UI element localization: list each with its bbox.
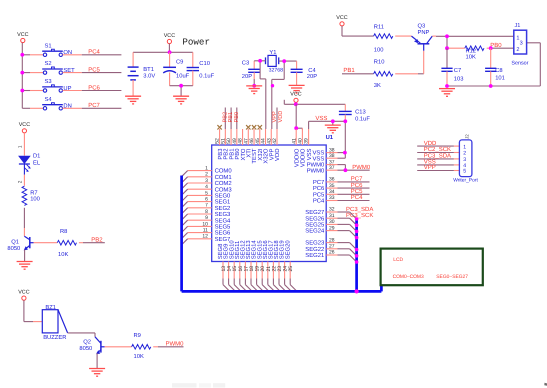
junction bbox=[294, 126, 298, 130]
pin 37 PWM0 bbox=[307, 165, 338, 174]
no-connect X bbox=[246, 125, 250, 129]
bus right vertical bbox=[355, 218, 358, 292]
svg-text:R9: R9 bbox=[134, 332, 141, 339]
pin 41 VDDIO bbox=[291, 129, 300, 167]
pin 39 VSS bbox=[304, 129, 313, 160]
svg-text:PC7: PC7 bbox=[88, 102, 100, 109]
wire VCC to buzzer bbox=[24, 300, 42, 321]
svg-text:SEG3: SEG3 bbox=[215, 211, 231, 218]
transistor Q2 8050 bbox=[79, 333, 104, 354]
pin 22 SEG17 bbox=[268, 240, 278, 284]
pin 34 PC5 bbox=[313, 189, 338, 198]
wire bus entry SEG1 bbox=[182, 202, 188, 208]
svg-text:PWM0: PWM0 bbox=[307, 167, 325, 174]
wire bus entry SEG11 bbox=[240, 285, 247, 292]
wire key row S3 bbox=[22, 90, 43, 92]
switch S3 bbox=[42, 78, 71, 92]
junction bbox=[355, 248, 359, 252]
svg-text:10K: 10K bbox=[466, 54, 476, 61]
pin 26 SEG21 bbox=[305, 250, 337, 259]
svg-text:11: 11 bbox=[203, 228, 208, 234]
resistor R10 3K bbox=[374, 58, 393, 89]
resistor R7 100 bbox=[22, 186, 40, 205]
wire VCC rail bbox=[284, 100, 345, 105]
svg-text:C7: C7 bbox=[454, 67, 461, 74]
wire bus entry SEG20 bbox=[290, 285, 297, 292]
svg-text:S3: S3 bbox=[45, 78, 52, 85]
pin 47 XTI bbox=[243, 129, 252, 158]
pin 31 SEG26 bbox=[305, 213, 337, 222]
power symbol VCC (buzzer) bbox=[18, 290, 29, 301]
wire bus entry SEG13 bbox=[251, 285, 258, 292]
pin 10 SEG5 bbox=[188, 221, 231, 230]
wire to seg bus bbox=[338, 224, 357, 231]
junction bbox=[355, 289, 359, 293]
svg-text:35: 35 bbox=[329, 183, 335, 189]
bus to LCD bbox=[380, 285, 383, 291]
svg-text:SEG5: SEG5 bbox=[215, 224, 231, 231]
capacitor C7 103 bbox=[441, 48, 463, 86]
crystal Y1 32768 bbox=[266, 50, 284, 73]
svg-text:PC2_SCK: PC2_SCK bbox=[424, 146, 451, 153]
svg-text:32768: 32768 bbox=[269, 68, 284, 74]
wire bus entry SEG15 bbox=[262, 285, 269, 292]
wire sensor bottom rail bbox=[447, 43, 540, 86]
pin 13 SEG8 bbox=[217, 243, 227, 285]
wire PB1 to R10 bbox=[342, 73, 374, 75]
wire bus entry SEG4 bbox=[182, 220, 188, 226]
pin 24 SEG19 bbox=[279, 240, 289, 284]
svg-text:SEG0: SEG0 bbox=[215, 193, 231, 200]
wire bus entry SEG5 bbox=[182, 226, 188, 232]
svg-text:103: 103 bbox=[454, 75, 464, 82]
svg-text:PB0: PB0 bbox=[234, 112, 240, 123]
pin 17 SEG12 bbox=[240, 240, 250, 284]
svg-text:34: 34 bbox=[329, 189, 335, 195]
pin 8 SEG3 bbox=[188, 209, 231, 218]
ground (sensor) bbox=[439, 89, 455, 97]
transistor Q1 8050 bbox=[7, 236, 33, 252]
pin 29 SEG24 bbox=[305, 225, 337, 234]
power symbol VCC (MCU) bbox=[290, 92, 301, 103]
svg-text:VDD: VDD bbox=[424, 140, 437, 147]
svg-text:PWM0: PWM0 bbox=[352, 164, 371, 171]
wire bus entry SEG6 bbox=[182, 233, 188, 239]
svg-text:1: 1 bbox=[205, 166, 208, 172]
junction bbox=[179, 84, 183, 88]
pin 20 SEG15 bbox=[256, 240, 266, 285]
junction bbox=[355, 217, 359, 221]
power symbol VCC (battery) bbox=[164, 33, 175, 44]
wire net PC7 bbox=[338, 181, 370, 183]
svg-text:27: 27 bbox=[329, 244, 335, 250]
svg-text:C3: C3 bbox=[242, 59, 249, 66]
wire bus entry SEG0 bbox=[182, 195, 188, 201]
connector J2 Writer_Port bbox=[453, 134, 478, 184]
pin 48 XTO bbox=[238, 129, 247, 161]
resistor R11 100 bbox=[374, 24, 393, 53]
capacitor C9 10uF bbox=[163, 52, 189, 85]
pin 28 SEG23 bbox=[305, 237, 337, 246]
svg-text:SEG25: SEG25 bbox=[305, 222, 325, 229]
svg-text:PC5: PC5 bbox=[351, 188, 363, 195]
no-connect X bbox=[252, 125, 256, 129]
wire R8 to PB2 bbox=[79, 242, 105, 244]
wire J2 PC3_SDA bbox=[417, 158, 459, 160]
svg-text:3.0V: 3.0V bbox=[143, 73, 155, 80]
svg-text:42: 42 bbox=[272, 138, 278, 144]
wire bus entry SEG2 bbox=[182, 208, 188, 214]
wire Q3 collector node bbox=[432, 36, 514, 48]
svg-text:COM2: COM2 bbox=[215, 180, 232, 187]
junction bbox=[343, 119, 347, 123]
svg-text:PC5: PC5 bbox=[88, 66, 100, 73]
svg-text:U1: U1 bbox=[326, 135, 334, 141]
ground (Q1 emitter) bbox=[17, 262, 33, 270]
capacitor C3 20P bbox=[242, 59, 260, 85]
svg-text:VSS: VSS bbox=[306, 148, 313, 160]
svg-text:7: 7 bbox=[205, 203, 208, 209]
junction bbox=[258, 59, 262, 63]
svg-text:1: 1 bbox=[17, 145, 23, 148]
svg-text:3: 3 bbox=[205, 178, 208, 184]
svg-text:20P: 20P bbox=[307, 73, 317, 80]
svg-text:26: 26 bbox=[329, 250, 335, 256]
junction bbox=[355, 223, 359, 227]
svg-text:VPP: VPP bbox=[424, 164, 436, 171]
wire Q1 base to R8 bbox=[34, 242, 58, 244]
wire bus entry COM1 bbox=[182, 177, 188, 183]
capacitor C8 101 bbox=[485, 48, 505, 86]
pin 9 SEG4 bbox=[188, 215, 231, 224]
wire to seg bus bbox=[338, 249, 357, 256]
svg-text:0.1uF: 0.1uF bbox=[199, 73, 214, 80]
svg-text:Writer_Port: Writer_Port bbox=[453, 178, 478, 184]
ground (power rail) bbox=[173, 96, 189, 104]
svg-text:C13: C13 bbox=[355, 109, 366, 116]
svg-text:8: 8 bbox=[205, 209, 208, 215]
wire to seg bus bbox=[338, 212, 357, 219]
wire net stub VDD bbox=[276, 108, 278, 130]
LED D1 EL bbox=[19, 154, 41, 172]
svg-text:J2: J2 bbox=[465, 134, 470, 139]
svg-text:COM0~COM3: COM0~COM3 bbox=[393, 274, 424, 280]
svg-text:SEG21: SEG21 bbox=[305, 252, 324, 259]
wire crystal right net bbox=[272, 61, 297, 129]
svg-text:SEG27: SEG27 bbox=[305, 209, 324, 216]
svg-text:VCC: VCC bbox=[19, 122, 30, 128]
wire R9 to PWM0 bbox=[153, 346, 183, 348]
svg-text:SEG24: SEG24 bbox=[305, 228, 325, 235]
pin 43 VPP bbox=[266, 129, 275, 160]
wire power bottom rail bbox=[170, 86, 193, 96]
svg-text:SEG20: SEG20 bbox=[284, 240, 291, 260]
pin 12 SEG7 bbox=[188, 234, 231, 243]
junction bbox=[344, 168, 348, 172]
wire J2 PC2_SCK bbox=[417, 152, 459, 154]
wire bus entry SEG19 bbox=[285, 285, 292, 292]
wire power top rail bbox=[133, 44, 193, 53]
svg-text:SEG22: SEG22 bbox=[305, 246, 324, 253]
svg-text:37: 37 bbox=[329, 165, 335, 171]
wire to seg bus bbox=[338, 231, 357, 238]
pin 6 SEG1 bbox=[188, 197, 231, 206]
wire Q2 emitter to ground bbox=[96, 353, 98, 368]
svg-text:LCD: LCD bbox=[393, 257, 403, 263]
svg-text:PC5: PC5 bbox=[313, 191, 325, 198]
bus left vertical bbox=[180, 176, 183, 292]
pin 2 COM1 bbox=[188, 172, 232, 181]
svg-text:PC6: PC6 bbox=[313, 185, 325, 192]
wire J2 VPP bbox=[417, 170, 459, 172]
wire net stub PB0 bbox=[236, 108, 238, 130]
wire R12 row bbox=[447, 47, 514, 49]
junction bbox=[20, 89, 24, 93]
wire bus entry COM0 bbox=[182, 171, 188, 177]
svg-text:3K: 3K bbox=[374, 82, 381, 89]
switch S2 bbox=[42, 60, 75, 74]
svg-text:VCC: VCC bbox=[336, 15, 347, 21]
wire Q2 base to R9 bbox=[105, 346, 132, 348]
switch S1 bbox=[42, 42, 72, 56]
pin 33 PC4 bbox=[313, 195, 338, 204]
svg-text:BZ1: BZ1 bbox=[45, 305, 56, 311]
svg-text:PC7: PC7 bbox=[351, 176, 363, 183]
wire PWM0 pins join bbox=[338, 165, 370, 171]
svg-text:101: 101 bbox=[495, 74, 505, 81]
resistor R9 10K bbox=[132, 332, 151, 360]
junction bbox=[252, 84, 256, 88]
svg-text:25: 25 bbox=[288, 266, 294, 272]
wire key row S2 bbox=[22, 72, 43, 74]
bus bottom horizontal bbox=[182, 290, 382, 293]
svg-text:BUZZER: BUZZER bbox=[43, 335, 66, 341]
capacitor C4 20P bbox=[291, 61, 318, 85]
connector J1 Sensor bbox=[511, 23, 528, 66]
svg-text:30: 30 bbox=[329, 219, 335, 225]
pin 36 PC7 bbox=[313, 177, 338, 186]
svg-text:Q3: Q3 bbox=[418, 23, 426, 30]
wire to seg bus bbox=[338, 218, 357, 225]
svg-text:0.1uF: 0.1uF bbox=[355, 116, 370, 123]
svg-text:PB2: PB2 bbox=[91, 236, 103, 243]
pin 38 VSS bbox=[313, 153, 338, 162]
svg-text:Q1: Q1 bbox=[11, 238, 19, 245]
ground (C4) bbox=[289, 85, 305, 93]
svg-text:29: 29 bbox=[329, 225, 335, 231]
wire key row S4 bbox=[22, 107, 43, 109]
pin 3 COM2 bbox=[188, 178, 232, 187]
svg-text:VSS: VSS bbox=[315, 115, 327, 122]
LCD module block bbox=[381, 249, 483, 286]
battery BT1 3.0V bbox=[128, 52, 156, 96]
wire VDDIO pin40 drop bbox=[301, 128, 303, 130]
pin 45 X32I bbox=[255, 129, 264, 161]
wire J2 VSS bbox=[417, 164, 459, 166]
pin 25 SEG20 bbox=[284, 240, 294, 285]
svg-text:10uF: 10uF bbox=[176, 73, 190, 80]
pin 35 PC6 bbox=[313, 183, 338, 192]
wire bus entry SEG3 bbox=[182, 214, 188, 220]
pin 40 VDDIO bbox=[298, 129, 307, 167]
wire net PC5 bbox=[338, 193, 370, 195]
ground (VSS) bbox=[325, 125, 341, 133]
wire net PC6 bbox=[338, 187, 370, 189]
wire J2 VDD bbox=[417, 145, 459, 147]
svg-text:2: 2 bbox=[463, 151, 466, 157]
svg-text:4: 4 bbox=[205, 184, 208, 190]
svg-text:5: 5 bbox=[205, 190, 208, 196]
svg-text:R12: R12 bbox=[466, 47, 477, 54]
svg-text:5: 5 bbox=[463, 169, 466, 175]
svg-text:COM3: COM3 bbox=[215, 186, 233, 193]
svg-text:C10: C10 bbox=[199, 60, 210, 67]
svg-text:S1: S1 bbox=[45, 42, 52, 49]
svg-text:PC4: PC4 bbox=[88, 49, 100, 56]
wire VCC to R11 bbox=[342, 26, 374, 36]
svg-text:PC4: PC4 bbox=[313, 198, 325, 205]
wire bus entry SEG10 bbox=[234, 285, 241, 292]
junction bbox=[331, 119, 335, 123]
wire net stub PB2 bbox=[224, 108, 226, 130]
wire net stub PB1 bbox=[230, 108, 232, 130]
svg-text:VDD: VDD bbox=[278, 111, 284, 123]
wire bus entry SEG12 bbox=[245, 285, 252, 292]
pin 14 SEG9 bbox=[223, 244, 233, 285]
svg-text:VDDIO: VDDIO bbox=[300, 148, 307, 167]
power symbol VCC (sensor) bbox=[336, 15, 347, 26]
svg-text:PC7: PC7 bbox=[313, 179, 324, 186]
junction bbox=[355, 236, 359, 240]
svg-text:2: 2 bbox=[17, 180, 23, 183]
svg-text:PC6: PC6 bbox=[351, 182, 363, 189]
junction bbox=[20, 71, 24, 75]
wire to seg bus bbox=[338, 243, 357, 250]
svg-text:10: 10 bbox=[202, 221, 208, 227]
svg-text:2: 2 bbox=[516, 47, 519, 53]
wire VSS net bbox=[309, 121, 346, 158]
pin 51 PB2 bbox=[220, 129, 229, 160]
pin 27 SEG22 bbox=[305, 244, 337, 253]
svg-text:10K: 10K bbox=[58, 251, 68, 258]
pin 42 VDD bbox=[272, 129, 281, 161]
wire PC7 stub bbox=[63, 107, 122, 109]
pin 37 PWM0 bbox=[307, 159, 338, 168]
pin 15 SEG10 bbox=[228, 240, 238, 285]
svg-text:VCC: VCC bbox=[290, 92, 301, 98]
junction bbox=[343, 151, 347, 155]
svg-text:8050: 8050 bbox=[7, 245, 20, 252]
capacitor C10 0.1uF bbox=[187, 52, 215, 85]
svg-text:6: 6 bbox=[205, 197, 208, 203]
svg-text:S4: S4 bbox=[45, 96, 53, 103]
ground (battery) bbox=[125, 96, 141, 104]
svg-text:EL: EL bbox=[33, 160, 41, 166]
svg-text:39: 39 bbox=[304, 138, 310, 144]
svg-text:VCC: VCC bbox=[17, 32, 28, 38]
wire PC4 stub bbox=[63, 54, 122, 56]
wire crystal left net bbox=[254, 61, 266, 129]
pin 11 SEG6 bbox=[188, 228, 231, 237]
ground (C3) bbox=[246, 86, 262, 94]
pin 49 PB0 bbox=[232, 129, 241, 160]
svg-text:C4: C4 bbox=[308, 67, 316, 74]
svg-text:R10: R10 bbox=[374, 58, 385, 65]
no-connect X bbox=[217, 125, 221, 129]
svg-text:28: 28 bbox=[329, 237, 335, 243]
svg-text:VDDIO: VDDIO bbox=[293, 148, 300, 167]
junction bbox=[282, 59, 286, 63]
svg-text:PNP: PNP bbox=[418, 30, 430, 36]
wire bus entry SEG14 bbox=[257, 285, 264, 292]
wire VCC to LED bbox=[23, 133, 25, 156]
svg-text:BT1: BT1 bbox=[143, 67, 154, 73]
wire PC6 stub bbox=[63, 90, 122, 92]
resistor R8 10K bbox=[57, 228, 76, 258]
junction bbox=[445, 46, 449, 50]
svg-text:S2: S2 bbox=[45, 60, 52, 67]
wire R11 to Q3 bbox=[395, 35, 411, 37]
wire buzzer to Q2 collector bbox=[68, 332, 95, 334]
no-connect X bbox=[258, 125, 262, 129]
svg-text:COM0: COM0 bbox=[215, 168, 233, 175]
svg-text:38: 38 bbox=[329, 153, 335, 159]
ground (Q2 emitter) bbox=[89, 369, 105, 377]
svg-text:40: 40 bbox=[298, 138, 304, 144]
svg-text:VCC: VCC bbox=[164, 33, 175, 39]
pin 5 SEG0 bbox=[188, 190, 231, 199]
wire net PC4 bbox=[338, 200, 370, 202]
pin 23 SEG18 bbox=[273, 240, 283, 285]
svg-text:3: 3 bbox=[520, 41, 523, 47]
pin 38 VSS bbox=[313, 147, 338, 156]
wire Q1 emitter to ground bbox=[24, 250, 26, 262]
wire bus entry SEG9 bbox=[229, 285, 236, 292]
pin 50 PB1 bbox=[226, 129, 235, 160]
svg-text:33: 33 bbox=[329, 195, 335, 201]
svg-text:J1: J1 bbox=[515, 23, 521, 29]
pin 21 SEG16 bbox=[262, 240, 272, 285]
svg-text:Q2: Q2 bbox=[83, 338, 91, 345]
wire bus entry SEG17 bbox=[273, 285, 280, 292]
corner mark bottom right bbox=[544, 383, 547, 386]
MCU U1 body bbox=[212, 145, 327, 262]
svg-text:100: 100 bbox=[374, 46, 384, 53]
wire bus entry SEG7 bbox=[182, 239, 188, 245]
svg-text:COM1: COM1 bbox=[215, 174, 232, 181]
wire key row S1 bbox=[22, 54, 43, 56]
svg-text:12: 12 bbox=[202, 234, 208, 240]
wire bus entry COM3 bbox=[182, 189, 188, 195]
watermark blobs bottom center bbox=[172, 383, 225, 387]
junction bbox=[168, 50, 172, 54]
svg-text:SEG23: SEG23 bbox=[305, 240, 325, 247]
svg-text:9: 9 bbox=[205, 215, 208, 221]
wire R7 to Q1 bbox=[23, 208, 25, 236]
svg-text:2: 2 bbox=[205, 172, 208, 178]
svg-text:VSS: VSS bbox=[313, 155, 325, 162]
junction bbox=[489, 84, 493, 88]
svg-text:PWM0: PWM0 bbox=[166, 340, 185, 347]
pin 18 SEG13 bbox=[245, 240, 255, 285]
junction bbox=[445, 34, 449, 38]
wire to seg bus bbox=[338, 255, 357, 262]
svg-text:SEG2: SEG2 bbox=[215, 205, 231, 212]
pin 46 TEST bbox=[249, 129, 258, 164]
wire VCC to VDDIO pins bbox=[296, 104, 302, 128]
svg-text:41: 41 bbox=[291, 138, 297, 144]
wire LED to R7 bbox=[23, 164, 25, 186]
